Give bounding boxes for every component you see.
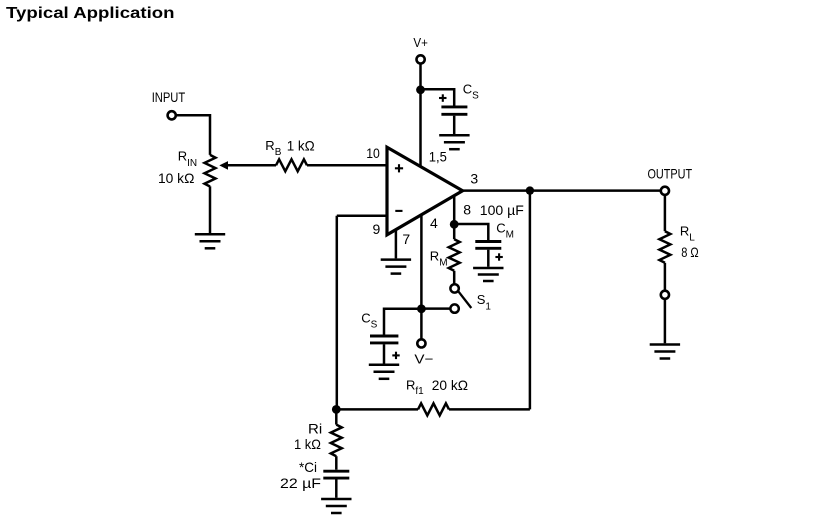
switch S1 lower contact — [450, 304, 458, 312]
svg-text:22 µF: 22 µF — [280, 475, 321, 491]
op-amp U1 — [387, 147, 463, 235]
wire Rf1 to output branch — [449, 408, 530, 411]
wire feedback left vertical — [336, 216, 339, 410]
svg-text:3: 3 — [470, 171, 478, 187]
svg-text:CS: CS — [463, 82, 479, 102]
wire pin 9 — [337, 215, 387, 218]
ground under pin 7 — [381, 260, 411, 274]
switch S1 blade — [458, 291, 471, 308]
junction pin 8 — [450, 220, 459, 229]
junction feedback node — [332, 405, 341, 414]
wire pot to ground — [209, 186, 212, 233]
svg-text:9: 9 — [373, 221, 381, 237]
ground under CS top — [439, 135, 469, 149]
CS bottom plus sign — [392, 352, 399, 359]
wire switch to V- bus — [421, 307, 450, 310]
svg-text:V−: V− — [414, 352, 433, 367]
CS plus sign — [439, 94, 447, 102]
wire feedback to Rf1 — [336, 408, 418, 411]
svg-text:CS: CS — [361, 310, 377, 330]
wire CM to ground — [487, 250, 490, 267]
svg-text:OUTPUT: OUTPUT — [648, 166, 693, 182]
wire CS to ground — [453, 116, 456, 134]
op-amp plus sign — [395, 164, 403, 172]
potentiometer RIN — [205, 155, 216, 187]
svg-text:INPUT: INPUT — [152, 89, 186, 105]
wire RL terminal to ground — [664, 299, 667, 343]
capacitor CM — [475, 242, 501, 249]
svg-text:*Ci: *Ci — [299, 459, 317, 475]
CM plus sign — [495, 253, 502, 260]
wire output terminal to RL — [664, 195, 667, 231]
ground under RIN — [195, 234, 225, 248]
svg-text:8: 8 — [463, 202, 471, 218]
switch S1 upper contact — [450, 284, 458, 292]
output terminal — [661, 187, 669, 195]
svg-text:S1: S1 — [477, 292, 492, 312]
wire junction to CM — [454, 224, 488, 240]
wire input to pot — [176, 115, 210, 155]
svg-text:CM: CM — [496, 221, 514, 241]
wire V- bus to CS bottom — [384, 309, 421, 335]
svg-text:Rf1: Rf1 — [406, 377, 424, 396]
svg-text:10: 10 — [366, 145, 380, 161]
svg-text:RB: RB — [265, 138, 281, 158]
svg-text:10 kΩ: 10 kΩ — [158, 170, 194, 186]
svg-text:Ri: Ri — [308, 420, 322, 436]
resistor Ri — [331, 425, 342, 457]
junction V+ / CS — [416, 85, 425, 94]
wire RB to pin 10 — [307, 164, 387, 167]
wire output — [463, 189, 661, 192]
wire pin 4 to V- — [420, 215, 423, 339]
wire pot to RB — [227, 164, 276, 167]
capacitor Ci — [323, 471, 349, 478]
RL lower terminal — [661, 291, 669, 299]
svg-text:1 kΩ: 1 kΩ — [287, 138, 315, 154]
wire RL to lower terminal — [664, 263, 667, 291]
wire Ri to Ci — [335, 456, 338, 470]
capacitor CS (bottom bypass) — [370, 336, 398, 343]
op-amp minus sign — [395, 210, 402, 212]
svg-text:Typical Application: Typical Application — [6, 5, 175, 22]
resistor RM — [449, 239, 460, 271]
svg-text:V+: V+ — [413, 35, 428, 50]
wiper arrow — [219, 161, 228, 170]
wire pin 8 — [453, 196, 456, 224]
svg-text:RIN: RIN — [178, 149, 197, 169]
ground under CS bottom — [369, 365, 399, 379]
node V- terminal — [417, 339, 425, 347]
wire RM below junction 8 — [453, 224, 456, 239]
svg-text:1 kΩ: 1 kΩ — [294, 436, 321, 452]
wire pin 7 — [395, 230, 398, 259]
svg-text:8 Ω: 8 Ω — [681, 244, 699, 260]
resistor RB — [276, 159, 307, 171]
ground under RL — [650, 345, 680, 359]
svg-text:RM: RM — [430, 248, 448, 268]
wire Ci to ground — [335, 480, 338, 498]
wire junction to Ri — [335, 409, 338, 424]
junction pin 4 / V- bus — [417, 304, 426, 313]
svg-text:7: 7 — [402, 231, 410, 247]
ground under Ci — [321, 499, 351, 513]
svg-text:100 µF: 100 µF — [480, 202, 524, 218]
wire right vertical to Rf1 — [529, 191, 532, 410]
wire CS bottom to ground — [383, 344, 386, 363]
capacitor CS (supply bypass) — [441, 107, 467, 114]
ground under CM — [473, 268, 503, 281]
input terminal — [168, 111, 176, 119]
junction output — [526, 186, 534, 194]
svg-text:RL: RL — [680, 223, 695, 243]
svg-text:1,5: 1,5 — [429, 148, 447, 164]
wire V+ junction to CS top — [421, 89, 455, 105]
V+ terminal — [417, 55, 425, 63]
resistor RL — [659, 231, 670, 263]
wire RM to switch — [453, 271, 456, 284]
svg-text:20 kΩ: 20 kΩ — [432, 377, 468, 393]
resistor Rf1 — [418, 403, 449, 415]
svg-text:4: 4 — [430, 215, 438, 231]
wire V+ to op-amp pin 1,5 — [419, 64, 422, 166]
